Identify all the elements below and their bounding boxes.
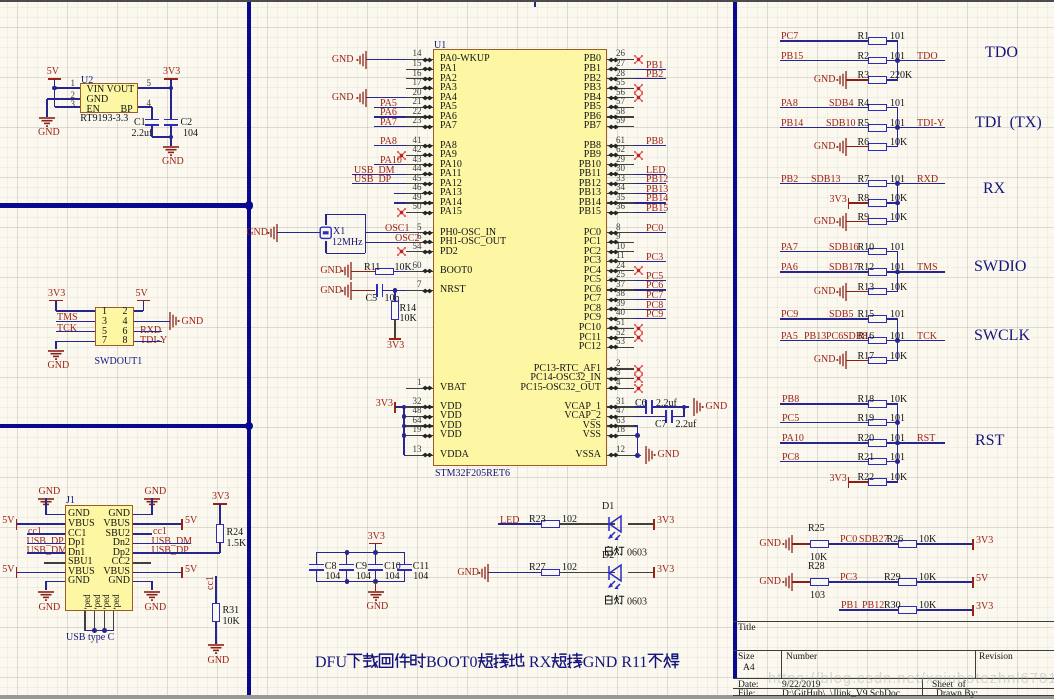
wire RXD output	[898, 183, 946, 184]
node junction	[895, 338, 900, 343]
node junction	[895, 420, 900, 425]
net label PB14	[781, 119, 803, 129]
net label PA8	[781, 99, 798, 109]
U1 pin 22 PA6	[406, 116, 433, 117]
label 白灯 0603 (D2)	[604, 595, 664, 607]
node pad junction 2	[102, 628, 107, 633]
wire C7 up to VCAP node	[672, 416, 685, 417]
node NRST junction	[393, 288, 398, 293]
U1 pin 38 PC7	[607, 299, 635, 300]
node C9 top	[345, 550, 350, 555]
wire OSC1 to pin5	[365, 232, 406, 233]
resistor R24 1.5K	[216, 524, 224, 543]
svg-text:0603: 0603	[627, 596, 647, 607]
U2 pin name EN	[87, 105, 100, 115]
U1 pin 52 PC11	[607, 337, 635, 338]
net label TDI-Y	[140, 336, 167, 346]
U1 pin 14 PA0-WKUP	[406, 59, 433, 60]
resistor R7 101	[868, 180, 887, 188]
ground (SWDOUT1 pin7)	[47, 350, 65, 361]
label USB type C	[66, 633, 114, 643]
designator X1	[333, 227, 345, 237]
U1 pin 29 PB10	[607, 164, 635, 165]
U1 pin 45 PA12	[406, 183, 433, 184]
resistor R6 10K	[868, 143, 887, 151]
title block top line	[733, 621, 1054, 622]
designator U2	[81, 76, 93, 86]
U1 pin 12 VSSA	[607, 455, 635, 456]
thick horizontal divider mid-left	[0, 424, 251, 429]
title block label Sheet of	[932, 681, 966, 691]
net label PC0	[840, 535, 857, 545]
net label PB1	[841, 601, 858, 611]
wire CC1	[27, 533, 65, 534]
wire ground to R27	[488, 572, 541, 573]
U1 pin 9 PC1	[607, 242, 635, 243]
U1 pin 27 PB1	[607, 69, 635, 70]
wire VBUS left bottom	[17, 572, 65, 573]
net label TMS	[57, 313, 78, 323]
U1 pin 59 PB7	[607, 126, 635, 127]
wire J1 GND right top	[151, 498, 152, 515]
ground (R3 pulldown, sideways)	[834, 70, 858, 90]
wire ground to R17	[846, 360, 868, 361]
wire crystal loop top	[325, 214, 326, 225]
net label PB2	[781, 175, 798, 185]
U1 pin 19 VDD	[406, 435, 433, 436]
U2 pin name GND	[87, 95, 109, 105]
resistor R9 10K	[868, 218, 887, 226]
wire crystal loop bottom	[326, 253, 365, 254]
resistor R19 101	[868, 419, 887, 427]
wire group vertical join	[897, 252, 898, 292]
connector SWDOUT1 body	[95, 307, 134, 346]
net label PB13	[804, 332, 826, 342]
node junction	[895, 58, 900, 63]
U1 pin 48 VDD	[406, 416, 433, 417]
junction dot on divider (249,205)	[245, 201, 253, 209]
wire ground to R6	[846, 146, 868, 147]
svg-text:BOOT0: BOOT0	[426, 654, 478, 671]
node VSS18	[635, 433, 640, 438]
node VCAP junction	[682, 405, 687, 410]
U1 pin 30 PB11	[607, 174, 635, 175]
node VDD64	[402, 424, 407, 429]
wire 3V3 to pin1	[56, 310, 95, 311]
wire 5V to U2 VIN pin1	[55, 87, 81, 88]
resistor R11 10K	[375, 268, 394, 276]
net label TCK	[57, 324, 77, 334]
net label SDB10	[826, 119, 855, 129]
op-amp U2 regulator RT9193-3.3 body	[80, 83, 138, 113]
node VSSA	[635, 453, 640, 458]
wire TCK output	[898, 340, 946, 341]
U2 pin name VIN	[87, 85, 105, 95]
U1 pin 5 PH0-OSC_IN	[406, 232, 433, 233]
net label USB_DP (left)	[27, 537, 64, 547]
capacitor C2 104	[164, 119, 178, 121]
net label SDB8	[843, 332, 867, 342]
J1 pin names right column	[108, 509, 130, 519]
node junction	[895, 459, 900, 464]
designator U1	[434, 41, 446, 51]
svg-text:0603: 0603	[627, 548, 647, 559]
ground (NRST, sideways)	[339, 281, 363, 301]
net label cc1 (right)	[153, 527, 167, 537]
net label PA5	[781, 332, 798, 342]
thick vertical divider line left	[247, 2, 252, 695]
ground (J1 bottom-right)	[143, 591, 161, 602]
resistor R12 101	[868, 268, 887, 276]
ground (SWDOUT1 pin4, sideways)	[158, 311, 182, 331]
wire Dp2 to R24	[133, 552, 220, 553]
power port 5V (J1 VBUS left bottom)	[16, 567, 18, 578]
wire net PB14 to R5	[780, 127, 868, 128]
ground (D2 row, sideways)	[476, 563, 500, 583]
ground (R28 row, sideways)	[780, 572, 804, 592]
U1 pin 58 PB6	[607, 116, 635, 117]
wire ground to C5	[351, 290, 375, 291]
resistor R5 101	[868, 124, 887, 132]
U2 pin name VOUT	[107, 85, 135, 95]
net label TCK	[917, 332, 937, 342]
ground (R6 pulldown, sideways)	[834, 137, 858, 157]
node 5V junction	[52, 86, 57, 91]
wire crystal loop right	[365, 214, 366, 253]
U1 pin 17 PA3	[406, 88, 433, 89]
capacitor C7 2.2uf	[665, 410, 667, 424]
wire pin2 to 5V	[134, 310, 144, 311]
U1 pin 57 PB5	[607, 107, 635, 108]
wire 3V3 down through C2	[170, 88, 171, 119]
diode D2 (LED)	[608, 561, 638, 589]
SWDOUT1 pin numbers 1-8	[102, 307, 107, 317]
crystal X1 symbol	[319, 226, 333, 240]
node VDD48	[402, 414, 407, 419]
wire cap bank bottom rail	[316, 581, 404, 582]
power port 3V3 (R26)	[972, 539, 974, 550]
wire group vertical join	[897, 404, 898, 482]
svg-text:GND R11: GND R11	[583, 654, 648, 671]
wire ground to R25	[792, 543, 811, 544]
U1 pin 63 VSS	[607, 425, 635, 426]
wire TDI-Y output	[898, 127, 946, 128]
wire 3V3 to VDD bus	[395, 406, 404, 407]
net label PC3	[840, 573, 857, 583]
net label USB_DM (right)	[152, 537, 193, 547]
U1 pin 42 PA9	[406, 155, 433, 156]
title block file value	[782, 690, 900, 699]
node junction	[895, 181, 900, 186]
U1 pin 39 PC8	[607, 309, 635, 310]
ground (R9 pulldown, sideways)	[834, 212, 858, 232]
net label PA6	[781, 263, 798, 273]
wire ground to crystal X1	[277, 232, 320, 233]
wire to ground below C2	[170, 137, 171, 146]
resistor R13 10K	[868, 288, 887, 296]
title block divider Sheet column	[922, 678, 923, 695]
label SWDIO	[974, 259, 1026, 275]
wire net PC8 to R21	[780, 461, 868, 462]
title block label Drawn By	[936, 690, 978, 699]
power port 3V3 (D1)	[653, 519, 655, 530]
resistor R22 10K	[868, 478, 887, 486]
node junction	[895, 441, 900, 446]
U2 value RT9193-3.3	[80, 114, 128, 124]
capacitor C5 10n	[376, 284, 378, 298]
label 白灯 0603 (D1)	[604, 546, 664, 558]
power port 5V (J1 right bottom)	[181, 567, 183, 578]
U1 pin 1 VBAT	[406, 388, 433, 389]
wire U2 GND pin2 to ground	[47, 98, 80, 99]
power port 3V3 (NRST pullup)	[389, 338, 401, 340]
U1 pin 6 PH1-OSC_OUT	[406, 242, 433, 243]
title block label Revision	[979, 653, 1013, 663]
U1 pin 36 PB15	[607, 212, 635, 213]
node C10 bottom	[373, 579, 378, 584]
wire R28 to R29	[829, 581, 898, 582]
wire net PA6 to R12	[780, 271, 868, 272]
U1 pin 61 PB8	[607, 145, 635, 146]
wire Dn2	[133, 543, 190, 544]
power port 5V (SWDOUT1 pin2)	[136, 289, 148, 299]
node junction	[895, 270, 900, 275]
net label OSC2	[395, 234, 419, 244]
wire Dn1	[27, 552, 65, 553]
U1 pin 31 VCAP_1	[607, 406, 635, 407]
net label TDO	[917, 52, 938, 62]
U1 pin 4 PC15-OSC32_OUT	[607, 388, 635, 389]
U2 pin number 3	[71, 100, 76, 109]
designator J1	[66, 496, 75, 506]
title block bottom line	[733, 695, 1054, 696]
wire VSS63 to bus	[634, 425, 638, 426]
title block size value A4	[743, 664, 755, 674]
U1 pin 21 PA5	[406, 107, 433, 108]
net label SDB5	[829, 310, 853, 320]
U1 pin 56 PB4	[607, 97, 635, 98]
title block divider Number|Revision	[975, 650, 976, 678]
resistor R31 10K	[212, 603, 220, 622]
U1 pin 28 PB2	[607, 78, 635, 79]
power port 5V (R29)	[972, 577, 974, 588]
designator SWDOUT1	[95, 357, 143, 367]
wire net PB2 to R7	[780, 183, 868, 184]
label SWCLK	[974, 328, 1030, 344]
wire C6 to gnd node	[652, 406, 690, 407]
power port 3V3 (R22)	[848, 477, 850, 488]
U1 pin 54 PD2	[406, 251, 433, 252]
wire VBUS left top	[17, 523, 65, 524]
wire J1 GND right bottom	[133, 581, 152, 582]
wire R30 to 3V3	[917, 609, 973, 610]
wire NRST to R14	[394, 291, 395, 301]
wire ground to R3	[846, 79, 868, 80]
node VOUT junction	[169, 86, 174, 91]
wire net PB8 to R18	[780, 403, 868, 404]
node junction	[895, 125, 900, 130]
U1 pin 8 PC0	[607, 232, 635, 233]
title block row line 2	[733, 650, 1054, 651]
resistor R28 103	[810, 578, 829, 586]
net label PC8	[782, 453, 799, 463]
resistor R1 101	[868, 37, 887, 45]
wire net PA8 to R4	[780, 107, 868, 108]
net label SDB13	[811, 175, 840, 185]
resistor R29 10K	[898, 578, 917, 586]
U2 pin name BP	[121, 105, 133, 115]
wire PB1/PB12 to R30	[839, 609, 898, 610]
thick horizontal divider upper-left	[0, 203, 251, 208]
U1 pin 24 PC4	[607, 270, 635, 271]
power port 3V3 (U2 output)	[163, 67, 180, 77]
power port 3V3 (R24 pullup)	[212, 492, 229, 502]
U1 pin 23 PA7	[406, 126, 433, 127]
wire net PA5 to R16	[780, 340, 868, 341]
U1 pin 40 PC9	[607, 318, 635, 319]
wire OSC2 to pin6	[365, 242, 406, 243]
title block label Number	[786, 653, 817, 663]
resistor R30 10K	[898, 606, 917, 614]
U1 pin 33 PB12	[607, 183, 635, 184]
wire VDD vertical bus	[403, 407, 404, 455]
power port 5V (U2 input)	[47, 67, 59, 77]
wire R26 to 3V3	[917, 543, 973, 544]
net label SDB16	[829, 243, 858, 253]
ground (J1 bottom-left)	[37, 591, 55, 602]
U1 pin 34 PB13	[607, 193, 635, 194]
wire VSS18 stub	[634, 435, 638, 436]
wire pin8 TDI-Y	[134, 341, 162, 342]
U1 pin 47 VCAP_2	[607, 416, 635, 417]
wire TDO output	[898, 60, 946, 61]
power port 3V3 (R8)	[848, 198, 850, 209]
resistor R20 101	[868, 439, 887, 447]
ground (VSSA, sideways)	[634, 445, 658, 465]
U1 pin 41 PA8	[406, 145, 433, 146]
wire U2 BP pin4 to C1	[138, 106, 152, 107]
U1 pin 44 PA11	[406, 174, 433, 175]
wire ground to R11	[351, 271, 375, 272]
net label USB_DP (right)	[152, 546, 189, 556]
wire EN vertical from 5V node	[54, 88, 55, 107]
U1 pin 32 VDD	[406, 406, 433, 407]
title block label Title	[738, 624, 756, 634]
resistor R25 10K	[810, 540, 829, 548]
node C9 bottom	[345, 579, 350, 584]
net label SDB17	[829, 263, 858, 273]
net label PA10	[782, 434, 804, 444]
U1 pin 60 BOOT0	[406, 271, 433, 272]
wire C5 to NRST pin	[382, 290, 406, 291]
power port 3V3 (R30)	[972, 605, 974, 616]
wire D1 to 3V3	[628, 523, 654, 524]
wire net PC5 to R19	[780, 422, 868, 423]
wire group vertical join	[897, 183, 898, 221]
wire R29 to 5V	[917, 581, 973, 582]
node junction	[895, 201, 900, 206]
wire 3V3 to R8	[849, 202, 868, 203]
wire J1 GND left bottom	[46, 581, 65, 582]
U1 value STM32F205RET6	[435, 469, 510, 479]
wire SBU2	[133, 533, 152, 534]
wire CC2 stub	[133, 562, 151, 563]
wire net PC7 to R1	[780, 40, 868, 41]
U1 pin 2 PC13-RTC_AF1	[607, 368, 635, 369]
U2 pin number 4	[147, 99, 152, 108]
U1 pin 43 PA10	[406, 164, 433, 165]
wire 3V3 to R22	[849, 481, 868, 482]
label RST	[975, 433, 1004, 449]
title block label Date	[738, 681, 759, 691]
resistor R21 101	[868, 458, 887, 466]
resistor R15 101	[868, 315, 887, 323]
J1 pin names left column	[68, 509, 90, 519]
power port 3V3 (VDD)	[394, 402, 396, 413]
wire VBUS right top to 5V	[133, 523, 182, 524]
net label PA7	[781, 243, 798, 253]
top window border	[0, 0, 1054, 2]
U1 pin 55 PB3	[607, 88, 635, 89]
ground (J1 top-left)	[39, 487, 61, 497]
capacitor C10 104	[375, 552, 376, 564]
U1 pin 50 PA15	[406, 212, 433, 213]
resistor R23 102	[541, 520, 560, 528]
resistor R2 101	[868, 57, 887, 65]
resistor R8 10K	[868, 199, 887, 207]
wire RST output	[898, 442, 946, 443]
U1 pin 51 PC10	[607, 328, 635, 329]
wire net PA7 to R10	[780, 251, 868, 252]
resistor R14 10K	[391, 301, 399, 320]
wire VCAP_1 to C6	[634, 406, 647, 407]
resistor R3 220K	[868, 76, 887, 84]
junction dot on divider (249,426)	[245, 422, 253, 430]
capacitor C1 2.2uf	[145, 119, 159, 121]
wire R31 to ground	[215, 622, 216, 645]
node pad junction 1	[92, 628, 97, 633]
wire ground to R13	[846, 291, 868, 292]
wire group vertical join	[897, 319, 898, 360]
wire D2 to 3V3	[628, 572, 654, 573]
net label USB_DM (left)	[27, 546, 68, 556]
wire pad rail	[85, 630, 114, 631]
title block label Size	[738, 653, 754, 663]
wire pin6 RXD	[134, 331, 162, 332]
node C10 top	[373, 550, 378, 555]
X1 value 12MHz	[332, 238, 363, 248]
node VDD19	[402, 433, 407, 438]
U1 pin 16 PA2	[406, 78, 433, 79]
power port 3V3 (SWDOUT1 pin1)	[48, 289, 65, 299]
J1 pad labels (rotated)	[84, 594, 94, 609]
wire J1 GND1 left	[45, 498, 46, 515]
capacitor C6 2.2uf	[645, 400, 647, 414]
wire cc1 to R31	[215, 576, 216, 603]
wire VCAP_2 to C7	[634, 416, 667, 417]
U1 pin 26 PB0	[607, 59, 635, 60]
bottom window border	[0, 695, 1054, 699]
annotation text DFU download note	[315, 652, 684, 674]
resistor R18 10K	[868, 400, 887, 408]
wire pin4 to ground	[134, 321, 170, 322]
mcu U1 STM32F205RET6 body	[433, 49, 607, 466]
U1 pin 11 PC3	[607, 261, 635, 262]
wire net PA10 to R20	[780, 442, 868, 443]
wire cap bank top rail	[316, 552, 404, 553]
net label PC7	[781, 32, 798, 42]
U1 pin 13 VDDA	[406, 455, 433, 456]
